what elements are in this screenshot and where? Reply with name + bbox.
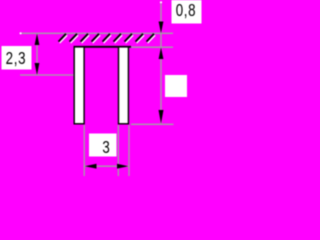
svg-text:0,8: 0,8 <box>176 2 197 21</box>
svg-text:3: 3 <box>102 138 109 157</box>
svg-text:2,3: 2,3 <box>6 49 27 68</box>
